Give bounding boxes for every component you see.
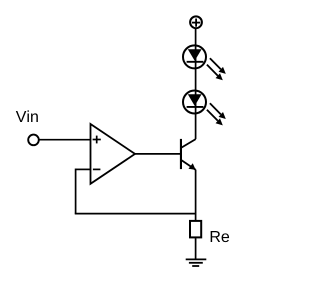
wire: supply rail from V+ down through LEDs to collector corner xyxy=(195,29,197,139)
wire: feedback vertical drop xyxy=(75,169,77,214)
Vin label xyxy=(16,110,38,122)
wire: inverting input stub xyxy=(76,168,91,170)
wire: feedback horizontal to emitter node xyxy=(75,213,196,215)
LED D1 light arrows xyxy=(207,58,226,80)
LED D2 xyxy=(183,91,206,114)
resistor Re xyxy=(190,221,201,238)
wire: resistor to ground xyxy=(195,238,197,259)
transistor Q1 xyxy=(181,139,196,170)
Re label xyxy=(211,231,229,242)
power supply V+ xyxy=(190,16,202,28)
LED D1 xyxy=(183,45,206,68)
wire: emitter down to resistor xyxy=(195,170,197,220)
ground xyxy=(186,259,207,266)
wire: Vin terminal to op-amp non-inverting input xyxy=(39,139,91,141)
LED D2 light arrows xyxy=(207,103,226,125)
op-amp U1 xyxy=(91,124,136,184)
wire: op-amp output to transistor base xyxy=(135,153,181,155)
node Vin terminal xyxy=(28,135,39,146)
